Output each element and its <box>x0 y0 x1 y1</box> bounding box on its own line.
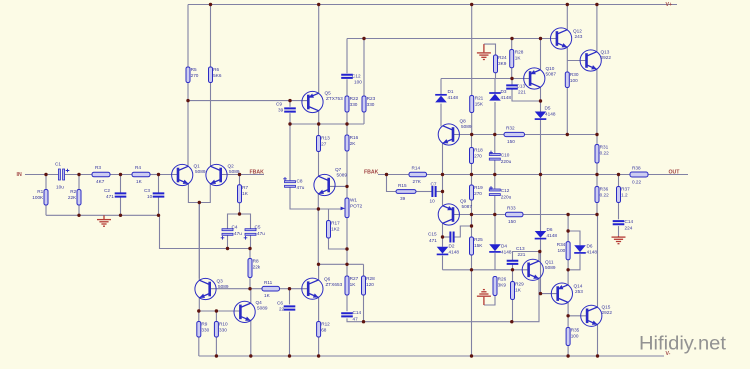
node FBAK right <box>364 170 379 176</box>
capacitor C14 <box>341 310 361 322</box>
wire Q3 emitter <box>198 297 200 311</box>
wire R19 bottom <box>471 200 473 215</box>
junction <box>566 213 569 216</box>
svg-text:R7: R7 <box>242 185 248 190</box>
svg-text:1K: 1K <box>515 288 522 293</box>
svg-text:5089: 5089 <box>257 306 268 311</box>
wire Q9 collector to D2 <box>442 223 444 247</box>
junction <box>77 214 80 217</box>
wire Q7 base <box>329 185 347 187</box>
wire Q4 base bus <box>199 310 241 312</box>
junction <box>539 37 542 40</box>
resistor R1 <box>32 189 48 205</box>
junction <box>362 37 365 40</box>
wire Q1 collector column <box>187 83 189 168</box>
transistor Q2 <box>206 164 240 186</box>
node V+ <box>666 2 673 8</box>
svg-text:5087: 5087 <box>546 72 557 77</box>
svg-text:Q8: Q8 <box>460 119 467 124</box>
resistor R28b <box>362 276 376 295</box>
junction <box>215 309 218 312</box>
svg-text:R33: R33 <box>507 206 516 211</box>
svg-text:Q12: Q12 <box>573 29 582 34</box>
junction <box>317 207 320 210</box>
wire R9 bottom <box>198 337 200 356</box>
wire R34 to Q14 collector <box>567 260 569 286</box>
wire Q12 emitter <box>566 47 568 61</box>
junction <box>197 309 200 312</box>
svg-text:D1: D1 <box>448 89 454 94</box>
junction <box>345 122 348 125</box>
svg-text:D3: D3 <box>501 89 507 94</box>
wire C13b top hook <box>513 252 541 261</box>
wire lower bias return <box>364 278 540 322</box>
junction <box>566 314 569 317</box>
wire IN lead <box>25 174 58 176</box>
junction <box>198 201 201 204</box>
junction <box>566 229 569 232</box>
wire FBAK to R14 <box>378 174 409 176</box>
svg-text:2922: 2922 <box>602 310 613 315</box>
svg-text:C3: C3 <box>144 188 150 193</box>
transistor Q8 <box>438 119 472 146</box>
svg-text:2922: 2922 <box>601 55 612 60</box>
resistor R7 <box>238 185 249 203</box>
wire C9 bottom lead <box>289 113 291 124</box>
svg-text:D2: D2 <box>449 244 455 249</box>
svg-text:C2: C2 <box>104 188 110 193</box>
svg-text:C4: C4 <box>232 225 238 230</box>
svg-text:R29: R29 <box>515 282 524 287</box>
svg-text:R4: R4 <box>135 165 141 170</box>
wire D1 to Q8 collector <box>440 104 442 127</box>
junction <box>510 77 513 80</box>
junction <box>470 173 473 176</box>
svg-text:5089: 5089 <box>195 169 206 174</box>
wire C13b bottom <box>512 264 514 270</box>
potentiometer W1 <box>341 198 363 218</box>
wire R15 branch <box>387 175 397 192</box>
resistor R29 <box>511 282 525 300</box>
junction <box>566 3 569 6</box>
svg-text:R19: R19 <box>474 185 483 190</box>
diode D6b <box>574 244 597 255</box>
diode D4 <box>489 244 512 255</box>
diode D1 <box>435 89 458 102</box>
svg-text:1K: 1K <box>515 56 522 61</box>
junction <box>317 122 320 125</box>
resistor R14 <box>409 166 427 184</box>
junction <box>249 354 252 357</box>
wire C6 bottom <box>289 312 291 356</box>
wire R24 to D3 <box>494 73 497 93</box>
svg-text:R24: R24 <box>498 55 507 60</box>
junction <box>539 292 542 295</box>
wire C8 bottom hook <box>290 187 341 209</box>
junction <box>566 354 569 357</box>
transistor Q1 <box>172 164 206 186</box>
svg-text:47u: 47u <box>234 231 242 236</box>
resistor R25 <box>470 237 484 255</box>
capacitor C3 <box>144 188 164 199</box>
wire R16 to Q7 node <box>346 152 348 187</box>
wire C14b to ground <box>618 226 620 236</box>
svg-text:POT2: POT2 <box>350 204 363 209</box>
svg-text:1K: 1K <box>264 293 271 298</box>
wire Q13 base <box>567 60 586 62</box>
wire R7 bottom <box>239 203 241 214</box>
resistor R19 <box>470 185 484 200</box>
wire Q10 collector to D5 <box>540 87 542 112</box>
capacitor C13b <box>507 246 526 264</box>
svg-text:FBAK: FBAK <box>364 170 379 176</box>
junction <box>345 185 348 188</box>
svg-text:Q14: Q14 <box>574 284 583 289</box>
svg-text:Q15: Q15 <box>602 305 611 310</box>
wire lower bias base bus <box>443 269 529 271</box>
junction <box>617 173 620 176</box>
wire R17 wiper link <box>328 209 330 221</box>
svg-text:OUT: OUT <box>669 170 681 176</box>
svg-text:IN: IN <box>17 172 22 178</box>
wire R33 to R36 node <box>523 214 597 216</box>
svg-text:Q13: Q13 <box>601 50 610 55</box>
resistor R3 <box>92 165 110 184</box>
wire Q6 emitter to R12 <box>318 297 320 322</box>
svg-text:R22: R22 <box>350 96 359 101</box>
wire driver emitter column <box>442 143 444 207</box>
junction <box>288 354 291 357</box>
svg-text:R18: R18 <box>474 148 483 153</box>
resistor R24 <box>494 55 507 73</box>
junction <box>248 247 251 250</box>
junction <box>209 3 212 6</box>
resistor R30 <box>565 72 579 88</box>
svg-text:330: 330 <box>219 328 227 333</box>
resistor R12 <box>317 322 331 338</box>
svg-text:R12: R12 <box>321 322 330 327</box>
svg-text:221: 221 <box>518 252 526 257</box>
wire Q2 collector column <box>210 83 212 168</box>
junction <box>157 173 160 176</box>
wire R22 bottom <box>346 112 348 124</box>
transistor Q6 <box>302 277 343 300</box>
capacitor C10 <box>489 151 511 164</box>
wire Q1-collector to Q5-base <box>188 100 308 102</box>
junction <box>238 173 241 176</box>
svg-text:D4: D4 <box>501 244 507 249</box>
svg-text:R11: R11 <box>264 280 273 285</box>
wire R23 top <box>363 39 365 97</box>
svg-text:C7: C7 <box>431 182 437 187</box>
junction <box>317 3 320 6</box>
resistor R2 <box>68 189 81 205</box>
svg-text:Q4: Q4 <box>256 300 263 305</box>
junction <box>539 173 542 176</box>
svg-text:4148: 4148 <box>545 112 556 117</box>
wire R4 to Q1 <box>150 174 159 176</box>
wire C5 bottom <box>250 234 252 248</box>
diode D2 <box>437 244 460 255</box>
svg-text:R5: R5 <box>191 67 197 72</box>
wire Q11 collector <box>538 252 540 262</box>
svg-text:V+: V+ <box>666 2 673 8</box>
capacitor C15 <box>428 232 454 244</box>
svg-text:270: 270 <box>474 191 482 196</box>
svg-text:R28: R28 <box>366 276 375 281</box>
wire R24 ground hook <box>484 44 496 55</box>
junction <box>44 173 47 176</box>
svg-text:Q10: Q10 <box>546 66 555 71</box>
resistor R10 <box>214 322 228 338</box>
svg-text:330: 330 <box>367 102 375 107</box>
transistor Q9 <box>438 199 472 226</box>
wire R31 bottom <box>596 163 598 175</box>
wire R5 column <box>187 5 189 68</box>
transistor Q12 <box>551 28 583 49</box>
wire Q15 collector column <box>597 215 599 308</box>
svg-text:C13: C13 <box>517 84 526 89</box>
svg-text:R16: R16 <box>350 135 359 140</box>
wire Q8 base <box>453 134 504 136</box>
svg-text:100: 100 <box>571 334 579 339</box>
svg-text:D6: D6 <box>587 244 593 249</box>
resistor R33 <box>506 206 524 224</box>
wire D4 bottom <box>494 253 496 270</box>
transistor Q5 <box>302 91 343 113</box>
svg-text:22k: 22k <box>253 265 261 270</box>
wire W1 bottom <box>346 218 348 264</box>
svg-text:C13: C13 <box>516 246 525 251</box>
capacitor C4 <box>221 225 243 240</box>
wire R36 bottom <box>596 203 598 215</box>
svg-text:Q7: Q7 <box>335 167 342 172</box>
svg-text:330: 330 <box>201 328 209 333</box>
transistor Q3 <box>195 278 229 299</box>
wire R12 bottom <box>318 337 320 356</box>
svg-text:R35: R35 <box>571 328 580 333</box>
svg-text:471: 471 <box>106 194 114 199</box>
wire R2 top <box>78 175 80 190</box>
wire R1 bottom <box>45 205 47 215</box>
watermark <box>639 334 727 355</box>
wire V- feed column <box>471 270 473 356</box>
resistor R31 <box>595 145 609 164</box>
svg-text:150: 150 <box>508 219 516 224</box>
wire R18 bottom <box>471 164 473 175</box>
junction <box>441 173 444 176</box>
wire R23 bottom <box>363 112 365 124</box>
junction <box>248 287 251 290</box>
wire D1 top hook <box>440 79 442 95</box>
resistor R11 <box>262 280 280 298</box>
wire R14 to output bus <box>427 174 631 176</box>
wire tail column <box>198 203 200 249</box>
svg-text:4148: 4148 <box>587 250 598 255</box>
wire C6 top <box>289 289 291 305</box>
svg-text:3K9: 3K9 <box>498 61 507 66</box>
wire Q5 emitter to V+ <box>318 5 320 95</box>
svg-text:C15: C15 <box>428 232 437 237</box>
svg-text:27: 27 <box>321 142 327 147</box>
wire D6 to Q14 base node <box>540 239 542 294</box>
wire H6 bus <box>290 123 364 125</box>
wire R13 to Q7 collector <box>318 152 320 177</box>
junction <box>595 133 598 136</box>
resistor R16 <box>345 135 359 151</box>
node IN <box>17 172 22 178</box>
wire C12 top lead <box>346 39 348 74</box>
wire R18 top <box>471 135 473 148</box>
wire R26b ground hook <box>484 296 495 306</box>
wire C10 bottom <box>494 159 496 174</box>
wire R8 top <box>249 249 251 259</box>
svg-text:5089: 5089 <box>337 173 348 178</box>
ground upper bias <box>477 44 491 59</box>
wire R28 bottom <box>511 68 513 79</box>
svg-text:3K9: 3K9 <box>498 283 507 288</box>
junction <box>493 173 496 176</box>
capacitor C7 <box>430 182 437 204</box>
svg-text:5089: 5089 <box>545 265 556 270</box>
junction <box>595 173 598 176</box>
svg-text:Hifidiy.net: Hifidiy.net <box>639 334 727 355</box>
wire C9-C8 link <box>289 124 291 181</box>
svg-text:R2: R2 <box>70 189 76 194</box>
wire Q3 base bus <box>210 288 262 290</box>
wire C15 right hook <box>454 226 471 237</box>
capacitor C12b <box>489 186 511 199</box>
resistor R15 <box>396 183 416 201</box>
junction <box>470 133 473 136</box>
wire D3 bottom <box>494 102 496 135</box>
svg-text:C10: C10 <box>501 153 510 158</box>
wire R7 top <box>239 175 241 185</box>
junction <box>362 320 365 323</box>
resistor R32 <box>504 126 525 144</box>
svg-text:4148: 4148 <box>501 250 512 255</box>
svg-text:R26: R26 <box>498 277 507 282</box>
junction <box>345 263 348 266</box>
transistor Q4 <box>234 300 268 323</box>
wire Q7 emitter column <box>317 193 319 264</box>
wire R13 top <box>318 124 320 136</box>
wire tail column2 <box>198 249 200 279</box>
wire C10 top <box>494 135 496 155</box>
wire R21 column <box>471 5 473 96</box>
svg-text:150: 150 <box>507 139 515 144</box>
resistor R34 <box>557 242 570 260</box>
wire Q14 base lead <box>541 293 558 295</box>
wire Q13 collector <box>596 5 598 53</box>
resistor R35 <box>566 328 580 346</box>
svg-text:R13: R13 <box>321 136 330 141</box>
svg-text:1K: 1K <box>350 282 357 287</box>
svg-text:100: 100 <box>557 248 565 253</box>
svg-text:100K: 100K <box>32 195 44 200</box>
node OUT <box>669 170 681 176</box>
svg-text:4148: 4148 <box>547 233 558 238</box>
capacitor C6 <box>277 301 295 312</box>
junction <box>510 37 513 40</box>
wire R28b bottom <box>363 295 365 322</box>
wire R32 to R30 node <box>525 134 598 136</box>
svg-text:1K: 1K <box>136 179 143 184</box>
wire Q15 emitter <box>597 324 599 356</box>
svg-text:R25: R25 <box>474 237 483 242</box>
junction <box>538 250 541 253</box>
ground lower bias <box>477 290 491 305</box>
wire V- rail <box>199 355 664 357</box>
wire output bus to D6 <box>540 175 542 232</box>
svg-text:R8: R8 <box>253 259 259 264</box>
wire R30 bottom <box>566 88 568 135</box>
svg-text:R36: R36 <box>600 187 609 192</box>
svg-text:253: 253 <box>575 289 583 294</box>
svg-text:0.22: 0.22 <box>600 151 610 156</box>
diode D5 <box>535 106 556 120</box>
wire Q1 base <box>159 174 179 176</box>
svg-text:243: 243 <box>575 34 583 39</box>
svg-text:R37: R37 <box>621 187 630 192</box>
wire R29 bottom <box>512 300 514 322</box>
resistor R26 <box>493 277 507 296</box>
junction <box>186 99 189 102</box>
svg-text:4148: 4148 <box>449 250 460 255</box>
svg-text:C12: C12 <box>352 74 361 79</box>
svg-text:R28: R28 <box>515 50 524 55</box>
svg-text:ZTX753: ZTX753 <box>326 96 343 101</box>
resistor R36 <box>595 187 609 203</box>
wire W1 top <box>346 186 348 197</box>
capacitor C13 <box>506 84 526 95</box>
resistor R9 <box>197 322 210 338</box>
capacitor C9 <box>276 102 296 113</box>
svg-text:Q11: Q11 <box>545 260 554 265</box>
junction <box>595 213 598 216</box>
svg-text:R21: R21 <box>475 96 484 101</box>
wire C14 bottom hook <box>347 318 364 321</box>
svg-text:FBAK: FBAK <box>250 170 265 176</box>
wire R37 to C14b <box>618 203 620 220</box>
wire R2 bottom <box>78 205 80 215</box>
wire D4 top <box>494 215 496 245</box>
svg-text:R10: R10 <box>219 322 228 327</box>
svg-text:R9: R9 <box>201 322 207 327</box>
wire H7 bias bus <box>318 263 363 265</box>
wire diff emitter join <box>188 183 210 202</box>
wire Q4 collector <box>250 289 252 304</box>
wire C4C5 top bracket <box>228 214 251 230</box>
wire Q3 collector column <box>198 203 200 281</box>
wire R19 top <box>471 175 473 186</box>
wire D6b bottom bracket <box>568 254 580 270</box>
wire D2 bottom hook <box>442 256 444 270</box>
wire C2 top <box>120 175 122 194</box>
junction <box>288 122 291 125</box>
svg-text:5089: 5089 <box>229 169 240 174</box>
svg-text:ZTX653: ZTX653 <box>326 282 343 287</box>
svg-text:R3: R3 <box>95 165 101 170</box>
junction <box>288 99 291 102</box>
resistor R37 <box>617 187 631 203</box>
capacitor C1 <box>55 162 69 190</box>
wire R35 bottom <box>567 346 569 357</box>
junction <box>470 3 473 6</box>
svg-text:R17: R17 <box>331 221 340 226</box>
resistor R4 <box>132 165 150 184</box>
wire R25 bottom <box>471 255 473 270</box>
